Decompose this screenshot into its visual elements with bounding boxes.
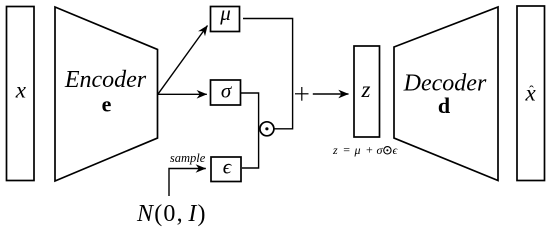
svg-text:μ: μ: [219, 1, 231, 25]
svg-text:z: z: [361, 77, 371, 102]
svg-text:x: x: [15, 77, 27, 102]
svg-text:N(0,I): N(0,I): [136, 201, 207, 227]
svg-text:sample: sample: [170, 151, 206, 165]
svg-text:ϵ: ϵ: [223, 155, 233, 179]
svg-text:+: +: [366, 143, 373, 157]
svg-text:σ: σ: [221, 79, 233, 103]
svg-text:μ: μ: [353, 143, 360, 157]
svg-text:=: =: [343, 143, 350, 157]
svg-text:d: d: [438, 93, 450, 118]
svg-text:ϵ: ϵ: [392, 143, 398, 157]
svg-text:z: z: [332, 143, 338, 157]
svg-text:Encoder: Encoder: [64, 67, 147, 93]
svg-text:σ: σ: [377, 143, 384, 157]
svg-text:ˆ: ˆ: [529, 84, 534, 99]
svg-text:e: e: [102, 92, 112, 117]
